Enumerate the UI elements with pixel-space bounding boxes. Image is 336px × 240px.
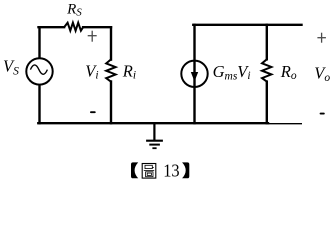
- svg-text:13: 13: [163, 161, 179, 181]
